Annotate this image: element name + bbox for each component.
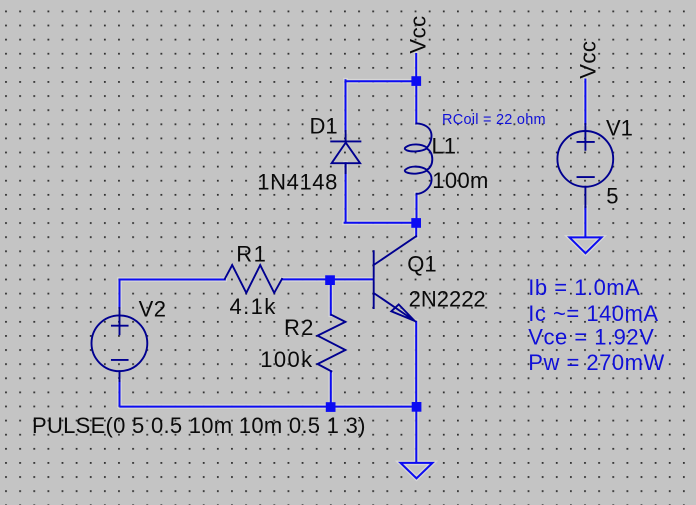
junction squares [325, 76, 421, 412]
svg-text:R1: R1 [236, 242, 267, 267]
transistor Q1 [374, 236, 416, 321]
svg-text:Vcc: Vcc [575, 41, 600, 79]
svg-text:2N2222: 2N2222 [409, 286, 486, 311]
wire diode anode to bottom node [345, 163, 412, 223]
wires bright blue [120, 54, 602, 478]
svg-text:1N4148: 1N4148 [257, 169, 338, 194]
wire R1 to node [282, 278, 325, 280]
wire top node to diode branch [346, 80, 413, 131]
node R2 bottom junction [326, 402, 336, 412]
inductor L1 coil [405, 123, 432, 193]
voltage source V2 [92, 315, 148, 371]
wire emitter down [415, 322, 417, 402]
svg-text:L1: L1 [432, 134, 456, 159]
voltage source V1 [557, 131, 613, 187]
svg-text:Vcc: Vcc [406, 15, 431, 53]
wire emitter node to ground [415, 412, 417, 463]
wire base [335, 278, 373, 280]
halo underlay for wires [120, 54, 602, 478]
svg-text:V2: V2 [139, 296, 167, 321]
svg-text:Ib = 1.0mA: Ib = 1.0mA [528, 275, 640, 300]
svg-text:RCoil = 22 ohm: RCoil = 22 ohm [442, 112, 546, 128]
wire Vcc flag to top node [415, 54, 417, 77]
svg-text:R2: R2 [284, 315, 315, 340]
wire R2 to bottom node [330, 371, 332, 402]
wire inductor bottom lead [416, 194, 418, 219]
wire collector stub [415, 228, 417, 237]
svg-text:Q1: Q1 [407, 252, 436, 277]
component symbols navy [92, 123, 614, 381]
wire Vcc flag to V1 [584, 80, 586, 125]
wire inductor top lead [415, 85, 417, 124]
svg-text:4.1k: 4.1k [230, 294, 277, 319]
diode D1 [331, 131, 360, 173]
svg-text:V1: V1 [606, 116, 633, 141]
node Vcc top junction [411, 76, 421, 86]
svg-text:100m: 100m [432, 168, 488, 193]
node emitter bottom junction [412, 402, 422, 412]
svg-text:Pw = 270mW: Pw = 270mW [528, 350, 664, 375]
svg-text:100k: 100k [260, 347, 313, 372]
svg-text:Vce = 1.92V: Vce = 1.92V [528, 324, 654, 349]
ground below V1 [570, 237, 602, 253]
resistor R1 [225, 265, 282, 293]
node base/R2 junction [325, 275, 335, 285]
node collector junction [411, 218, 421, 228]
svg-text:Ic ~= 140mA: Ic ~= 140mA [528, 301, 658, 326]
annotations blue [442, 112, 665, 375]
wire bottom rail [120, 406, 411, 408]
wire V1 to ground [584, 207, 586, 236]
wire V2 to R1 [120, 280, 225, 309]
labels black [32, 15, 633, 437]
wire node to R2 [330, 285, 332, 315]
svg-text:5: 5 [606, 183, 618, 208]
svg-text:PULSE(0 5 0.5 10m 10m 0.5 1 3): PULSE(0 5 0.5 10m 10m 0.5 1 3) [32, 413, 366, 438]
wire V2 bottom lead [119, 381, 121, 406]
resistor R2 [318, 315, 346, 372]
svg-text:D1: D1 [310, 114, 338, 139]
ground below emitter [401, 463, 433, 478]
